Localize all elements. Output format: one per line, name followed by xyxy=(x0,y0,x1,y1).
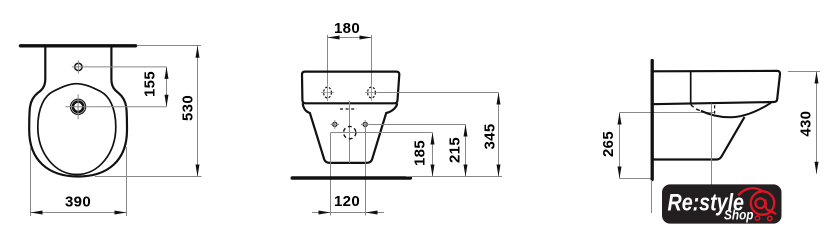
logo red at-sign tail xyxy=(771,211,776,214)
drain crosshair xyxy=(65,94,90,119)
dimension 390 line xyxy=(31,212,127,214)
svg-text:215: 215 xyxy=(446,137,463,163)
svg-text:155: 155 xyxy=(142,71,159,97)
dimension 155 arrow down xyxy=(165,95,169,107)
hidden drain tick (dashed) xyxy=(714,105,716,113)
leader faucet to 155 dim xyxy=(85,66,167,68)
tap hole right crosshair xyxy=(365,84,378,101)
wall line (side view) xyxy=(651,61,654,180)
drain center horizontal line / 185 connector xyxy=(331,132,433,134)
leader drain to 155 dim xyxy=(91,106,167,108)
dimension 155 arrow up xyxy=(165,67,169,79)
530 bottom connector xyxy=(95,176,202,178)
tap hole right (dashed) xyxy=(368,87,376,98)
fixing hole right xyxy=(363,122,367,126)
logo red swoosh from e to at-sign xyxy=(738,188,763,195)
logo wheel right xyxy=(768,216,772,220)
faucet hole xyxy=(75,63,82,70)
180 extension line left xyxy=(327,35,329,84)
fixing hole left xyxy=(333,122,337,126)
hidden bowl arc (dashed) xyxy=(691,105,701,111)
390 extension line left xyxy=(30,147,32,216)
dimension 185 arrow up xyxy=(431,133,435,145)
baseline thin extension to dims xyxy=(406,176,502,178)
390 extension line right xyxy=(126,147,128,216)
dimension 180 arrow left xyxy=(328,36,340,40)
bidet body outline (front) xyxy=(303,103,398,163)
drain hole ring xyxy=(73,102,83,112)
530 top connector xyxy=(137,45,201,47)
leader tap hole to 345 dim xyxy=(378,92,499,94)
rim divider vertical xyxy=(690,71,692,104)
dimension 215 arrow down xyxy=(464,165,468,177)
dimension 120 arrow left (outside) xyxy=(319,211,331,215)
dimension 390 arrow left xyxy=(31,211,43,215)
pedestal outline xyxy=(652,117,745,160)
svg-text:390: 390 xyxy=(65,194,91,211)
logo red at-sign a stem xyxy=(765,199,771,210)
svg-text:265: 265 xyxy=(600,131,617,157)
logo wheel left xyxy=(755,216,759,220)
svg-text:Shop: Shop xyxy=(724,206,754,222)
svg-text:530: 530 xyxy=(179,95,196,121)
dimension 430 arrow up xyxy=(815,72,819,84)
dimension 155 line xyxy=(166,67,168,107)
logo red at-sign outer loop xyxy=(751,191,774,214)
120 extension line left xyxy=(330,133,332,216)
dimension 430 line xyxy=(816,72,818,174)
dimension 430 arrow down xyxy=(815,162,819,174)
bidet body outline (top view, continuous from neck) xyxy=(29,47,127,176)
rim block outline xyxy=(652,71,780,104)
dimension 265 arrow down xyxy=(618,167,622,179)
180 extension line right xyxy=(371,35,373,84)
svg-text:120: 120 xyxy=(334,193,360,210)
dimension 185 arrow down xyxy=(431,165,435,177)
430 top connector xyxy=(788,71,820,73)
120 extension line right xyxy=(365,125,367,216)
mounting surface thick line xyxy=(292,176,410,180)
leader fixing holes to 215 dim xyxy=(370,124,466,126)
bowl underside curve xyxy=(701,103,771,118)
dimension 530 line xyxy=(197,46,199,177)
dimension 180 arrow right xyxy=(360,36,372,40)
dimension 120 arrow right (outside) xyxy=(366,211,378,215)
dimension 215 line xyxy=(465,125,467,177)
logo red at-sign inner a xyxy=(755,198,765,208)
dimension 345 arrow down xyxy=(497,165,501,177)
bidet inner bowl outline xyxy=(38,84,116,175)
svg-text:345: 345 xyxy=(481,124,498,150)
dimension 215 arrow up xyxy=(464,125,468,137)
drain hole outer circle xyxy=(71,99,86,114)
265 bottom connector xyxy=(620,178,653,180)
fixing hole left crosshair xyxy=(331,120,340,129)
cistern top rectangle xyxy=(302,72,399,104)
svg-text:430: 430 xyxy=(797,111,814,137)
dimension 265 line xyxy=(619,113,621,179)
hidden inlet dashes xyxy=(340,108,357,110)
svg-text:180: 180 xyxy=(334,20,360,37)
dimension 120 line xyxy=(312,212,384,214)
dimension 265 arrow up xyxy=(618,113,622,125)
logo box xyxy=(662,184,782,223)
faucet hole crosshair xyxy=(72,60,85,73)
dimension 345 arrow up xyxy=(497,93,501,105)
tap hole left crosshair xyxy=(321,84,334,101)
fixing hole right crosshair xyxy=(361,120,370,129)
drain centerline vertical xyxy=(349,101,351,163)
wall extension line below xyxy=(651,180,653,213)
dimension 390 arrow right xyxy=(115,211,127,215)
dimension 530 arrow down xyxy=(196,165,200,177)
dimension 180 line xyxy=(328,37,372,39)
drain (dashed circle) xyxy=(344,126,356,138)
dimension 185 line xyxy=(432,133,434,177)
dimension 345 line xyxy=(498,93,500,177)
svg-text:185: 185 xyxy=(411,140,428,166)
dimension 530 arrow up xyxy=(196,46,200,58)
wall line (top view) xyxy=(21,44,136,47)
tap hole left (dashed) xyxy=(324,87,332,98)
265 top connector xyxy=(620,112,715,114)
drain centerline (side view) xyxy=(711,104,713,192)
